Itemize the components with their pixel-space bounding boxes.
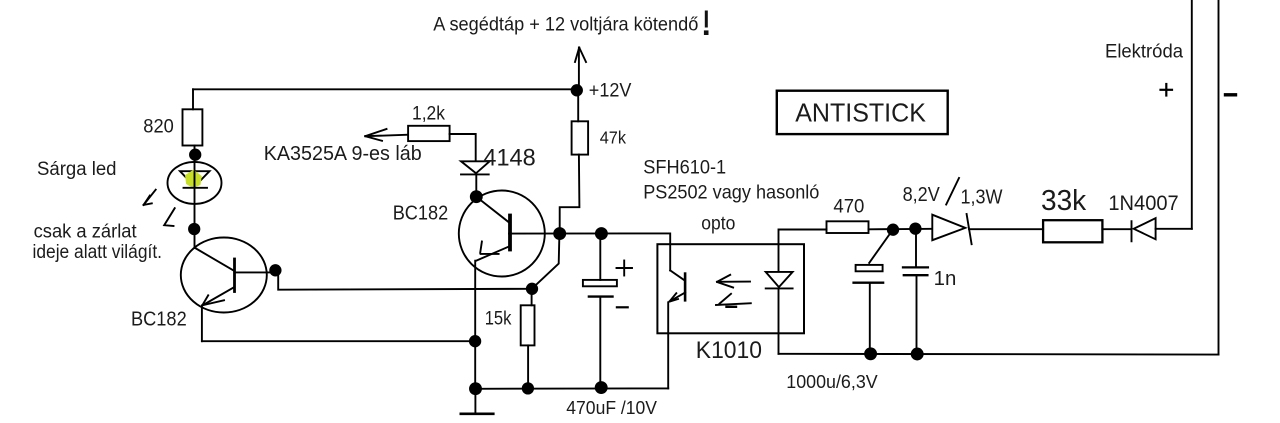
svg-text:Sárga led: Sárga led	[37, 159, 117, 180]
wire 1,2k to diode 4148	[450, 134, 476, 161]
resistor 470	[827, 221, 869, 233]
wire cap 470uF top lead	[599, 234, 601, 280]
wire secondary bottom rail	[779, 353, 1219, 356]
wire cap 1000u bottom lead	[869, 284, 871, 355]
wire Q1 base to 15k node	[275, 271, 532, 290]
resistor 820	[183, 109, 203, 145]
node ground rail left	[470, 383, 481, 394]
wire base rail to opto	[509, 233, 670, 270]
svg-text:15k: 15k	[485, 309, 512, 330]
wire cap 470uF bottom lead	[599, 297, 601, 388]
svg-text:BC182: BC182	[131, 308, 187, 330]
svg-text:+12V: +12V	[589, 81, 632, 102]
LED light arrow 1	[144, 190, 156, 205]
wire 33k to 1N4007	[1102, 228, 1131, 230]
transistor Q1 BC182 left	[181, 238, 273, 313]
svg-text:470uF /10V: 470uF /10V	[566, 397, 657, 418]
diode 4148	[461, 161, 490, 196]
wire 15k bottom lead	[527, 345, 529, 388]
wire zener to 33k	[969, 228, 1043, 230]
svg-text:PS2502 vagy hasonló: PS2502 vagy hasonló	[643, 182, 819, 204]
wire Q2 emitter down to ground rail	[474, 261, 476, 389]
svg-text:820: 820	[143, 117, 174, 138]
wire diagonal to cap 1000u	[869, 232, 891, 263]
wire primary ground rail	[476, 387, 669, 389]
arrow +12V up	[575, 48, 586, 89]
svg-text:1n: 1n	[934, 268, 957, 290]
resistor 47k	[572, 121, 589, 154]
opto LED	[766, 244, 793, 354]
svg-text:BC182: BC182	[393, 203, 449, 225]
wire electrode minus vertical	[1218, 0, 1220, 355]
wire 470 to zener	[869, 228, 933, 231]
svg-text:33k: 33k	[1041, 185, 1087, 217]
zener diode 8,2V	[932, 214, 971, 244]
svg-text:1000u/6,3V: 1000u/6,3V	[786, 371, 878, 392]
svg-text:A segédtáp + 12 voltjára köten: A segédtáp + 12 voltjára kötendő	[433, 14, 698, 36]
wire electrode plus vertical	[1191, 0, 1193, 229]
node LED cathode	[189, 224, 199, 234]
svg-text:1,2k: 1,2k	[412, 104, 445, 125]
svg-text:opto: opto	[701, 214, 735, 235]
svg-text:4148: 4148	[483, 145, 535, 172]
wire 47k to base node	[560, 155, 580, 234]
svg-text:8,2V: 8,2V	[903, 184, 941, 206]
resistor 15k	[521, 305, 535, 345]
arrow to KA3525A pin 9	[365, 129, 408, 141]
wire base node to 15k top	[533, 234, 560, 288]
svg-text:KA3525A 9-es láb: KA3525A 9-es láb	[264, 142, 422, 165]
wire 15k top lead	[531, 289, 533, 306]
transistor Q2 BC182 middle	[459, 191, 545, 277]
capacitor C2 1000u/6,3V	[854, 265, 884, 283]
wire Q1 emitter down	[201, 305, 203, 341]
node emitter junction	[470, 336, 480, 346]
svg-text:ideje alatt világít.: ideje alatt világít.	[33, 242, 163, 263]
node LED anode	[190, 150, 200, 160]
node base-47k	[554, 228, 565, 239]
resistor 1,2k	[408, 126, 450, 141]
svg-text:ANTISTICK: ANTISTICK	[795, 98, 926, 128]
wire 820 to LED and transistor	[194, 146, 196, 249]
svg-text:Elektróda: Elektróda	[1105, 42, 1183, 63]
node cap bottom	[596, 382, 607, 393]
node 15k top	[527, 284, 537, 294]
LED D1 yellow	[168, 162, 222, 204]
resistor 33k	[1043, 220, 1102, 242]
wire Q1 emitter to Q2 emitter	[202, 340, 475, 342]
node +12V	[572, 85, 582, 95]
label exclamation	[704, 11, 709, 36]
node 1n top	[910, 223, 920, 233]
node cap 1n bottom	[912, 349, 923, 360]
wire opto emitter down	[667, 302, 669, 388]
node base-cap	[596, 228, 607, 239]
opto phototransistor	[670, 270, 686, 301]
svg-text:470: 470	[833, 197, 864, 218]
capacitor C3 1n	[903, 229, 928, 354]
opto light arrow 1	[717, 275, 750, 288]
slash between 8,2V and 1,3W	[946, 178, 959, 205]
minus sign electrode	[1226, 93, 1236, 96]
wire +12V top rail	[193, 88, 577, 90]
ground	[461, 389, 494, 414]
opto coupler U1 box	[657, 244, 804, 333]
wire 1N4007 to electrode plus	[1156, 228, 1192, 230]
svg-text:1,3W: 1,3W	[961, 187, 1003, 209]
node Q1 base	[270, 265, 280, 275]
wire +12V to 47k	[577, 90, 579, 121]
node 470-cap1000u	[888, 225, 898, 235]
svg-text:1N4007: 1N4007	[1108, 192, 1178, 215]
node cap 1000u bottom	[865, 348, 876, 359]
svg-text:K1010: K1010	[696, 337, 762, 364]
svg-text:47k: 47k	[600, 128, 627, 148]
opto light arrow 2	[716, 294, 751, 307]
plus sign electrode	[1161, 84, 1173, 96]
wire opto anode up	[779, 230, 827, 245]
wire down to R 820	[192, 89, 194, 109]
ANTISTICK title box	[777, 91, 948, 134]
diode 1N4007	[1132, 218, 1156, 241]
capacitor C1 470uF/10V	[583, 261, 632, 308]
node 15k bottom	[523, 383, 533, 393]
svg-text:csak a zárlat: csak a zárlat	[34, 222, 138, 243]
svg-text:SFH610-1: SFH610-1	[643, 157, 726, 179]
LED light arrow 2	[164, 208, 175, 226]
node Q2 collector	[471, 191, 482, 202]
